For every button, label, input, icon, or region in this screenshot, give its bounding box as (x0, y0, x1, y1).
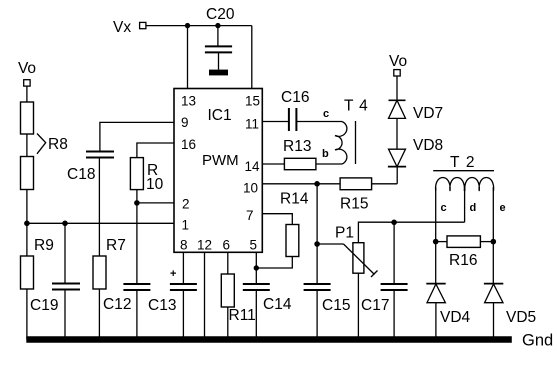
svg-text:9: 9 (181, 115, 189, 130)
svg-text:C15: C15 (322, 297, 350, 314)
node bus dot R7 (97, 337, 102, 342)
svg-text:R13: R13 (283, 138, 311, 155)
terminal Vo left (24, 80, 30, 86)
node junction R16 right (491, 239, 497, 245)
diode VD7 (389, 100, 406, 118)
wire wiper junction to P1 arrow (317, 243, 343, 245)
wire pin 12 to ground (204, 252, 206, 339)
node bus dot C14 (254, 337, 259, 342)
wire pin 5 down (255, 252, 257, 284)
svg-text:VD5: VD5 (506, 309, 536, 326)
svg-text:R7: R7 (106, 237, 126, 254)
resistor R15 (340, 178, 372, 190)
transformer T4 winding (335, 122, 347, 165)
diode VD8 (388, 149, 406, 166)
wire R11 to ground (227, 307, 229, 340)
svg-text:14: 14 (245, 159, 261, 174)
svg-text:c: c (323, 108, 329, 120)
wire R10 to pin 2 (136, 190, 138, 203)
svg-text:7: 7 (246, 208, 254, 223)
resistor R8 upper half (21, 102, 34, 134)
svg-text:Vo: Vo (389, 53, 407, 70)
resistor R14 (286, 225, 299, 257)
wire pin 14 to R13 (262, 163, 284, 165)
svg-text:C16: C16 (281, 89, 309, 106)
wire pin 7 to R14 (262, 214, 292, 225)
transformer T2 winding (436, 178, 494, 192)
wire R10 junction down to C12 (136, 203, 138, 284)
wire pin 11 to C16 (262, 121, 289, 123)
wire C14 to ground (255, 290, 257, 340)
node junction pin10/C15 (314, 181, 320, 187)
terminal Vx (140, 22, 146, 28)
wire C13 to ground (182, 290, 184, 340)
svg-text:2: 2 (182, 197, 190, 212)
svg-text:VD4: VD4 (440, 309, 471, 326)
wire pin 2 (137, 202, 174, 204)
svg-text:11: 11 (245, 117, 259, 132)
svg-text:C19: C19 (30, 297, 58, 314)
wire R15 to VD8 node (372, 183, 398, 185)
wire T2 tap c down (435, 187, 437, 283)
terminal Vo right (394, 70, 400, 76)
wire rail to C20 (217, 26, 219, 47)
wire R8 gap (26, 134, 28, 157)
wire P1 bottom to ground (357, 273, 359, 339)
svg-text:VD8: VD8 (413, 137, 443, 154)
svg-text:R16: R16 (449, 252, 477, 269)
node junction pin5/R14 (254, 265, 259, 270)
svg-text:16: 16 (181, 137, 196, 152)
wire C20 to ground bar (218, 52, 220, 69)
capacitor C12 (123, 284, 150, 290)
svg-text:Vo: Vo (18, 60, 36, 77)
resistor R9 (21, 256, 34, 289)
wiper arrow of R8 (37, 134, 46, 154)
svg-text:6: 6 (223, 238, 231, 253)
node junction R16 left (433, 239, 439, 245)
wire terminal to VD7 (396, 76, 398, 100)
svg-text:C18: C18 (67, 166, 95, 183)
node bus dot VD5 (491, 337, 496, 342)
wire C15 to ground (316, 290, 318, 340)
wire rail to pin 13 (187, 26, 189, 89)
wire R7 to ground (98, 289, 100, 340)
wire pin 8 down (182, 252, 184, 284)
svg-text:T 4: T 4 (344, 98, 369, 115)
wire C19 branch (64, 223, 66, 283)
svg-text:Vx: Vx (113, 19, 131, 36)
wire terminal to R8 (26, 86, 28, 102)
svg-text:5: 5 (250, 238, 258, 253)
capacitor C13 (170, 284, 197, 290)
node bus dot C12 (134, 337, 139, 342)
resistor R10 (130, 158, 143, 190)
svg-text:VD7: VD7 (413, 105, 443, 122)
wire feedback line pin1 (27, 222, 174, 224)
svg-text:Gnd: Gnd (522, 332, 553, 350)
svg-text:13: 13 (181, 94, 196, 109)
wire C18 to R7 (98, 158, 100, 257)
wire top supply rail (146, 25, 252, 27)
svg-text:R15: R15 (340, 196, 368, 213)
svg-text:d: d (470, 202, 477, 214)
wire pin 9 to C18 (100, 122, 174, 151)
diode VD4 (426, 284, 445, 303)
svg-text:15: 15 (245, 94, 260, 109)
svg-text:R9: R9 (34, 237, 54, 254)
wire pin10 junction down to C15 (316, 184, 318, 284)
wire VD4 to ground (435, 303, 437, 340)
node bus dot C19 (62, 337, 67, 342)
node junction P1 wiper (314, 241, 320, 247)
wire C19 to ground (64, 290, 66, 340)
diode VD5 (484, 284, 503, 303)
svg-text:b: b (322, 148, 329, 160)
resistor R13 (284, 158, 316, 169)
node junction R10/C12 (134, 200, 140, 206)
node junction R8/R9 divider (24, 221, 30, 227)
wire T2 tap d down and left (464, 187, 466, 222)
node junction P1/T2-d tap (391, 220, 397, 226)
node junction C19 tap (62, 221, 68, 227)
svg-text:C13: C13 (148, 297, 176, 314)
wire C12 to ground (136, 290, 138, 340)
svg-text:c: c (441, 202, 447, 214)
node bus dot R11 (225, 337, 230, 342)
svg-text:C12: C12 (103, 296, 131, 313)
wire pin 10 feedback (262, 183, 340, 185)
capacitor C19 (52, 284, 80, 290)
ground bus (26, 336, 512, 343)
svg-text:8: 8 (180, 238, 188, 253)
wire R13 to T4 (node b) (316, 163, 342, 165)
wire R9 to ground bus (26, 289, 28, 340)
wire pin 16 to R10 (137, 143, 174, 158)
svg-text:IC1: IC1 (208, 107, 232, 124)
wire pin5 junction to R14 bottom (256, 257, 292, 269)
capacitor C16 (289, 108, 297, 131)
wire VD5 to ground (493, 303, 495, 340)
wire C16 to T4 winding (node c) (296, 121, 342, 123)
resistor R7 (93, 256, 106, 289)
op-amp U1 : IC1 PWM controller box (174, 89, 262, 253)
wire rail to pin 15 (251, 26, 253, 89)
svg-text:e: e (500, 202, 506, 214)
svg-text:10: 10 (243, 181, 258, 196)
wire pin 6 to R11 (227, 252, 229, 274)
wire VD8 to R15 node (396, 167, 398, 184)
svg-text:12: 12 (197, 238, 212, 253)
node bus dot P1 (356, 337, 361, 342)
node bus dot C17 (392, 337, 397, 342)
node bus dot pin12 (202, 337, 207, 342)
wire C17 to ground (393, 290, 395, 340)
node bus dot VD4 (433, 337, 438, 342)
node bus dot C13 (181, 337, 186, 342)
resistor R11 (221, 274, 234, 307)
resistor R8 lower half (21, 157, 34, 190)
svg-text:+: + (170, 268, 176, 280)
node junction pin13 branch (185, 23, 190, 28)
node junction C20 branch (215, 23, 220, 28)
svg-text:R8: R8 (48, 136, 68, 153)
svg-text:R14: R14 (280, 191, 309, 208)
wire T2 tap e down (492, 187, 494, 283)
svg-text:PWM: PWM (202, 152, 239, 169)
potentiometer P1 wiper diagonal (344, 244, 375, 275)
capacitor C20 (205, 46, 232, 52)
svg-text:C14: C14 (263, 296, 292, 313)
svg-text:C20: C20 (206, 6, 235, 23)
ground (local bar under C20) (209, 70, 228, 76)
transformer T4 core (355, 121, 357, 164)
svg-text:T 2: T 2 (450, 154, 476, 171)
wire VD7 to VD8 (396, 118, 398, 149)
capacitor C17 (381, 284, 408, 290)
svg-text:C17: C17 (361, 297, 389, 314)
capacitor C14 (243, 284, 270, 290)
capacitor C18 (86, 152, 114, 158)
resistor R16 (436, 241, 447, 243)
wire P1 top to tap rail (358, 222, 464, 243)
svg-text:1: 1 (182, 218, 190, 233)
potentiometer P1 body (353, 243, 364, 274)
potentiometer P1 wiper tick (371, 271, 378, 278)
capacitor C15 (304, 284, 331, 290)
svg-text:P1: P1 (335, 225, 354, 242)
transformer T2 core bar (433, 170, 494, 172)
wire VD8 node down to C17 (393, 222, 395, 284)
svg-text:10: 10 (146, 176, 164, 193)
node bus dot C15 (315, 337, 320, 342)
wire R8 to R9 (26, 190, 28, 257)
svg-text:R11: R11 (229, 307, 256, 324)
